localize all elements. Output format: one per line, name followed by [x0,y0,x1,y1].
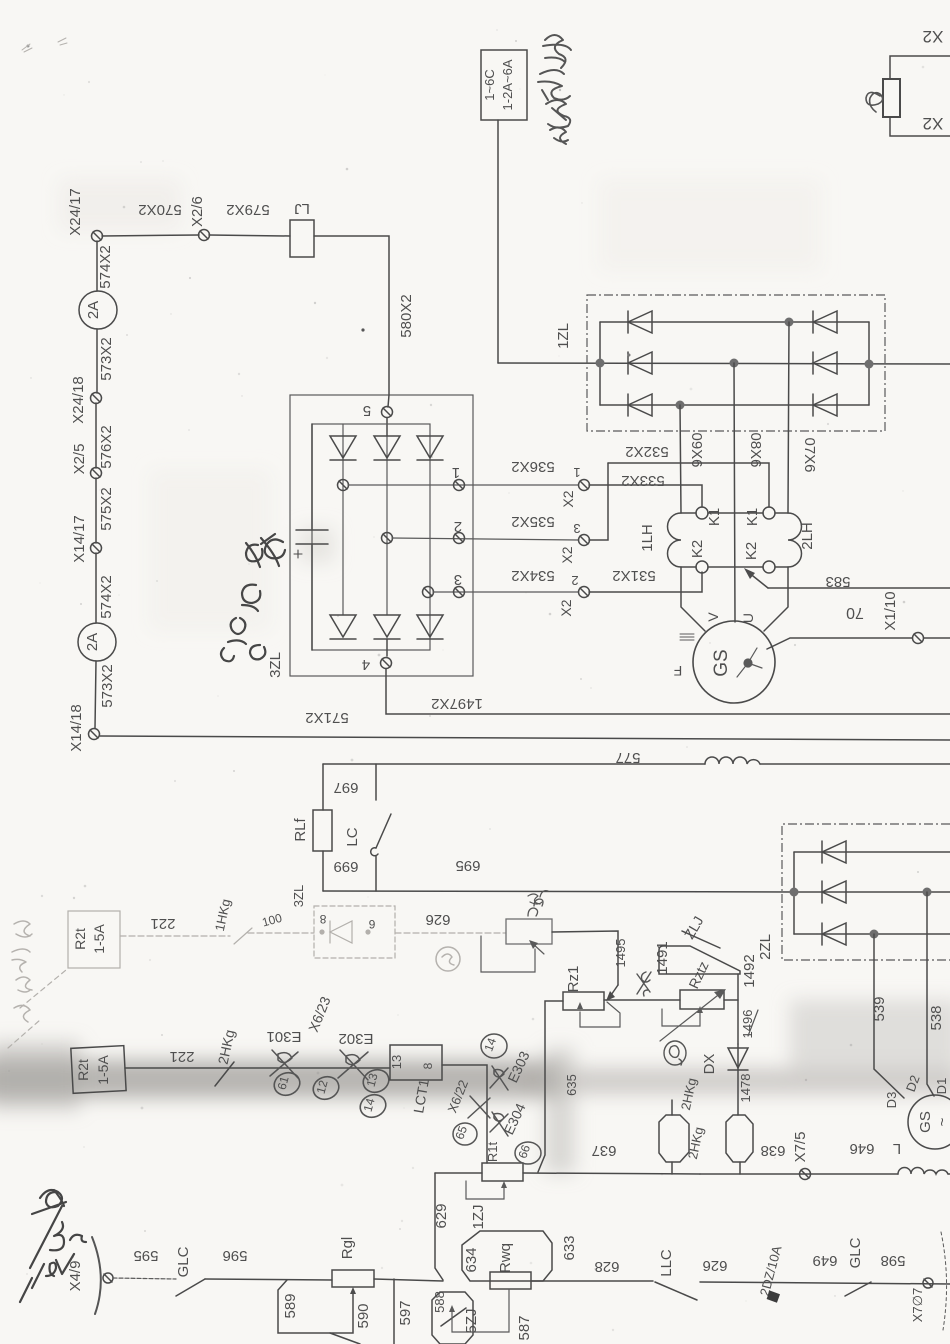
resistor Rztz [680,990,724,1009]
diode 1ZL D3 [628,394,652,416]
svg-text:221: 221 [169,1048,194,1065]
wire 1495 [552,931,618,985]
svg-text:3ZL: 3ZL [267,652,284,678]
svg-text:626: 626 [425,911,450,928]
fuse 2A [78,623,116,661]
svg-text:2: 2 [571,573,578,588]
svg-text:1492: 1492 [741,954,758,987]
wire [538,1001,563,1172]
svg-text:633: 633 [561,1235,578,1260]
connector X4/9 [103,1273,113,1283]
svg-text:D1: D1 [934,1078,949,1095]
rectifier 2ZL box [782,824,950,960]
wire X7/5 with inductor [700,1173,950,1175]
svg-text:70: 70 [846,604,864,621]
connector X24/18 [91,393,102,404]
tap loop [466,1181,504,1199]
3ZL legs [342,424,344,615]
svg-text:~: ~ [934,1117,950,1126]
svg-text:K1: K1 [706,508,723,526]
svg-text:K2: K2 [689,540,706,558]
svg-text:2A: 2A [84,633,101,651]
3ZL inner box [312,424,430,650]
svg-text:K1: K1 [744,508,761,526]
svg-text:577: 577 [615,749,640,766]
circled numbers [271,1066,392,1121]
resistor R [883,79,900,117]
wiper loop [580,1002,620,1027]
relay contact ZLJ [659,946,740,974]
svg-text:X2: X2 [560,490,576,507]
terminal 5 [388,395,389,407]
svg-text:2ZL: 2ZL [757,934,774,960]
svg-text:1-2A~6A: 1-2A~6A [500,59,515,110]
svg-text:1: 1 [452,464,460,481]
resistor Rwq [490,1272,531,1289]
svg-text:8: 8 [421,1062,435,1069]
circled 5 [453,1123,477,1145]
contact K1 (2LH) [763,507,775,519]
svg-text:X2/5: X2/5 [71,444,88,475]
svg-text:LC: LC [344,827,361,846]
svg-text:K2: K2 [743,542,760,560]
resistor Rgl [332,1270,374,1287]
relay 1ZJ/Rwq contact [462,1231,552,1281]
wire 539 [874,934,904,1098]
svg-text:595: 595 [133,1247,158,1264]
svg-text:X24/18: X24/18 [70,376,87,424]
diode 1ZL D5 [813,352,837,374]
svg-text:X2: X2 [923,27,944,46]
wire from box [497,120,499,363]
svg-text:X2/6: X2/6 [189,196,206,227]
circled 66 [515,1142,541,1164]
ghost stamp circle [436,947,460,971]
wire [314,236,389,395]
wires into GS [681,567,705,631]
riser to row B [435,1173,443,1280]
svg-text:1: 1 [573,465,580,480]
svg-text:570X2: 570X2 [138,201,181,218]
crossed label 1495->1496 [637,972,651,996]
svg-text:628: 628 [594,1258,619,1275]
svg-text:Rwq: Rwq [497,1243,514,1273]
wire 575X2 [95,478,97,543]
diode 2ZL D3 [822,923,846,945]
wire 695 [323,891,793,892]
resistor Rz1 [563,992,604,1010]
switch LC [375,764,377,800]
junction dots [790,888,799,897]
connector X2/2 [579,587,590,598]
ghost wire [120,933,506,936]
svg-text:LJ: LJ [294,200,310,217]
LH rails [681,512,696,514]
wire X2 top [890,56,950,79]
svg-text:1491: 1491 [654,941,671,974]
wire 577 with inductor [323,763,950,765]
svg-text:649: 649 [812,1252,837,1269]
svg-text:R1t: R1t [485,1141,500,1162]
svg-text:533X2: 533X2 [621,472,664,489]
svg-text:GS: GS [917,1111,934,1133]
wire 574X2 [96,241,98,291]
wire from LCT box [442,1065,487,1163]
wire 70 to X1/10 [767,638,912,649]
svg-text:2: 2 [454,518,462,535]
svg-text:637: 637 [591,1142,616,1159]
connector X2/1 [579,480,590,491]
wire [322,764,324,810]
switch LLC [655,1282,697,1300]
ghost chinese column [12,921,32,1022]
svg-text:1LH: 1LH [639,524,656,552]
wire 538 [927,892,934,1096]
terminal box 1~6C [481,50,527,120]
svg-text:535X2: 535X2 [511,513,554,530]
box RLt 1-5A [71,1046,126,1094]
svg-text:GLC: GLC [847,1237,864,1268]
diode 3ZL top row [330,436,356,460]
svg-text:LLC: LLC [658,1249,675,1277]
wire 595 [113,1278,176,1279]
phase wires down [680,405,681,513]
box LCT1 [390,1045,442,1080]
wire 573X2 [95,661,96,728]
script X6/22 + cross [468,1096,490,1118]
svg-text:3ZL: 3ZL [291,885,306,907]
svg-text:5ZJ: 5ZJ [463,1308,480,1333]
svg-text:X7∅7: X7∅7 [910,1288,925,1322]
svg-text:1-5A: 1-5A [91,924,107,954]
stamp E304 crossed [490,1112,508,1136]
capacitor C [294,424,328,650]
svg-text:F: F [674,663,683,679]
svg-text:574X2: 574X2 [98,575,115,618]
svg-text:536X2: 536X2 [511,458,554,475]
svg-text:1~6C: 1~6C [482,69,497,100]
handwritten R [866,92,883,112]
svg-text:695: 695 [455,857,480,874]
wire X2 bottom [890,117,950,136]
wire [209,235,290,236]
coil LJ [290,220,314,257]
svg-text:GS: GS [711,649,732,676]
svg-text:532X2: 532X2 [625,443,668,460]
svg-text:3: 3 [573,521,580,536]
contact 2HKg right [726,1115,753,1162]
svg-text:580X2: 580X2 [398,294,415,337]
svg-text:8: 8 [319,912,326,926]
svg-text:588: 588 [432,1291,447,1313]
svg-text:1495: 1495 [613,939,628,968]
svg-text:DX: DX [701,1054,718,1075]
wire to Rztz [604,999,680,1001]
svg-text:635: 635 [564,1074,579,1096]
circled Q2 [664,1041,686,1065]
fuse 2A [79,291,117,329]
svg-text:X2: X2 [559,546,575,563]
svg-text:531X2: 531X2 [612,567,655,584]
junction dots [596,359,605,368]
svg-text:589: 589 [282,1293,299,1318]
main rail [498,363,950,364]
svg-text:699: 699 [333,858,358,875]
rectifier 3ZL outer box [290,395,473,676]
svg-text:573X2: 573X2 [98,337,115,380]
svg-text:571X2: 571X2 [305,709,348,726]
svg-text:1-5A: 1-5A [95,1055,111,1085]
svg-text:638: 638 [760,1142,785,1159]
tap loop Rwq [452,1289,509,1332]
handwriting left of 3ZL [221,534,285,661]
svg-text:697: 697 [333,779,358,796]
svg-text:X2: X2 [923,114,944,133]
stubs [671,1162,673,1174]
switch GLC [176,1279,205,1296]
svg-text:534X2: 534X2 [511,567,554,584]
generator GS [693,621,775,703]
svg-text:2LH: 2LH [799,522,816,550]
inner connectors [338,480,349,491]
svg-text:X1/10: X1/10 [882,591,899,630]
svg-text:07X6: 07X6 [801,437,818,472]
wire 533X2 [608,463,769,507]
svg-text:GLC: GLC [175,1246,192,1277]
svg-text:Rz1: Rz1 [565,966,582,993]
potentiometer [506,919,552,944]
svg-text:5: 5 [363,402,371,419]
resistor R1t [482,1163,523,1181]
relay 5ZJ [432,1292,473,1344]
wire 1497X2 [386,669,950,714]
stamp E303 crossed [490,1066,508,1090]
svg-text:597: 597 [397,1300,414,1325]
contact K2 (2LH) [763,561,775,573]
ghost dashed diagonals [20,970,66,1008]
handwriting 110V/3~ [20,1190,86,1302]
svg-text:1ZL: 1ZL [555,323,572,349]
wire to K1 (1LH) [589,485,702,507]
svg-text:587: 587 [516,1315,533,1340]
connector X24/17 [92,231,103,242]
terminal 4 [386,639,388,656]
wire 574X2 [95,553,97,623]
contact 2HKg left [659,1115,689,1162]
resistor RLf [313,810,332,851]
edge terminals 1 2 3 [454,480,465,491]
diode DX [737,1044,739,1115]
svg-text:X24/17: X24/17 [67,188,84,236]
wire + branch 597 [374,1279,443,1281]
loop 589/590 [278,1280,353,1333]
svg-text:579X2: 579X2 [226,201,269,218]
contact K2 (1LH) [696,561,708,573]
switch GLC (2) [845,1282,871,1296]
diode 1ZL D4 [813,311,837,333]
svg-text:573X2: 573X2 [99,664,116,707]
brush ticks [680,634,694,640]
svg-text:RLf: RLf [292,817,309,841]
1ZL buses [599,322,601,405]
connector X2/3 [579,535,590,546]
svg-text:E301: E301 [266,1028,301,1045]
switch blade 2HKg [215,1062,234,1086]
wire 583 with arrow [768,587,950,589]
svg-text:626: 626 [702,1257,727,1274]
svg-text:3: 3 [454,571,462,588]
wire 573X2 [96,329,98,393]
wire [435,1172,482,1174]
svg-text:4: 4 [362,656,370,673]
svg-text:13: 13 [389,1055,404,1069]
wire 576X2 [95,403,97,468]
connector X2/5 [91,468,102,479]
diode 1ZL D1 [628,311,652,333]
svg-text:2A: 2A [85,301,102,319]
svg-text:575X2: 575X2 [98,487,115,530]
wire [102,235,199,236]
curl arc [92,1237,101,1314]
ghost diode box (3ZL aux) [314,906,395,958]
svg-text:596: 596 [222,1247,247,1264]
diode 2ZL D1 [822,841,846,863]
svg-text:574X2: 574X2 [97,245,114,288]
svg-text:X14/17: X14/17 [71,515,88,563]
wire 596 [205,1279,332,1280]
diode 1ZL D6 [813,394,837,416]
wire 626 [700,1282,950,1284]
svg-text:646: 646 [849,1140,874,1157]
winding symbol [737,648,762,677]
connector X2/6 [199,230,210,241]
svg-text:V: V [705,612,721,622]
Rztz tap loop [662,1009,700,1026]
connector X14/17 [91,543,102,554]
wire down [737,974,739,1044]
svg-text:539: 539 [871,996,888,1021]
rectifier 1ZL box [587,295,885,431]
2ZL bus [793,852,795,934]
connector X14/18 [89,729,100,740]
dashed curl right [941,1232,947,1330]
small scribble [528,894,542,904]
ghost box R2t 1-5A [68,911,120,968]
wire [125,1067,390,1069]
svg-text:Rgl: Rgl [339,1237,356,1260]
svg-text:1ZJ: 1ZJ [470,1204,487,1229]
coil 2LH [788,513,802,567]
svg-text:1478: 1478 [738,1074,753,1103]
diode 1ZL D2 [628,352,652,374]
wiper arrow [532,943,544,954]
svg-text:X14/18: X14/18 [68,704,85,752]
connector X7/7 [923,1278,933,1288]
svg-text:D3: D3 [884,1092,899,1109]
svg-text:590: 590 [355,1303,372,1328]
svg-text:E302: E302 [338,1030,373,1047]
svg-text:583: 583 [825,573,850,590]
svg-text:629: 629 [433,1203,450,1228]
svg-text:221: 221 [150,915,175,932]
svg-text:R2t: R2t [75,1059,91,1081]
svg-text:6: 6 [368,917,375,931]
circled 14 [481,1034,507,1058]
diode 3ZL bottom row [330,615,356,639]
svg-text:538: 538 [928,1005,945,1030]
svg-text:X4/9: X4/9 [67,1261,84,1292]
contact K1 (1LH) [696,507,708,519]
coil 1LH [668,513,682,567]
links to edge terminals [348,484,578,486]
svg-text:576X2: 576X2 [98,425,115,468]
svg-text:X2: X2 [558,599,574,616]
wire 571X2 [100,736,950,740]
wire 633/628 [531,1280,653,1282]
svg-text:R2t: R2t [72,928,88,950]
diode 2ZL D2 [822,881,846,903]
svg-text:598: 598 [880,1252,905,1269]
handwriting (chinese) [538,35,571,144]
svg-text:634: 634 [463,1247,480,1272]
generator GS~ [908,1095,950,1149]
svg-text:1497X2: 1497X2 [431,695,483,712]
svg-text:X7/5: X7/5 [792,1132,809,1163]
svg-text:L: L [893,1140,901,1157]
tap loop [481,936,535,972]
